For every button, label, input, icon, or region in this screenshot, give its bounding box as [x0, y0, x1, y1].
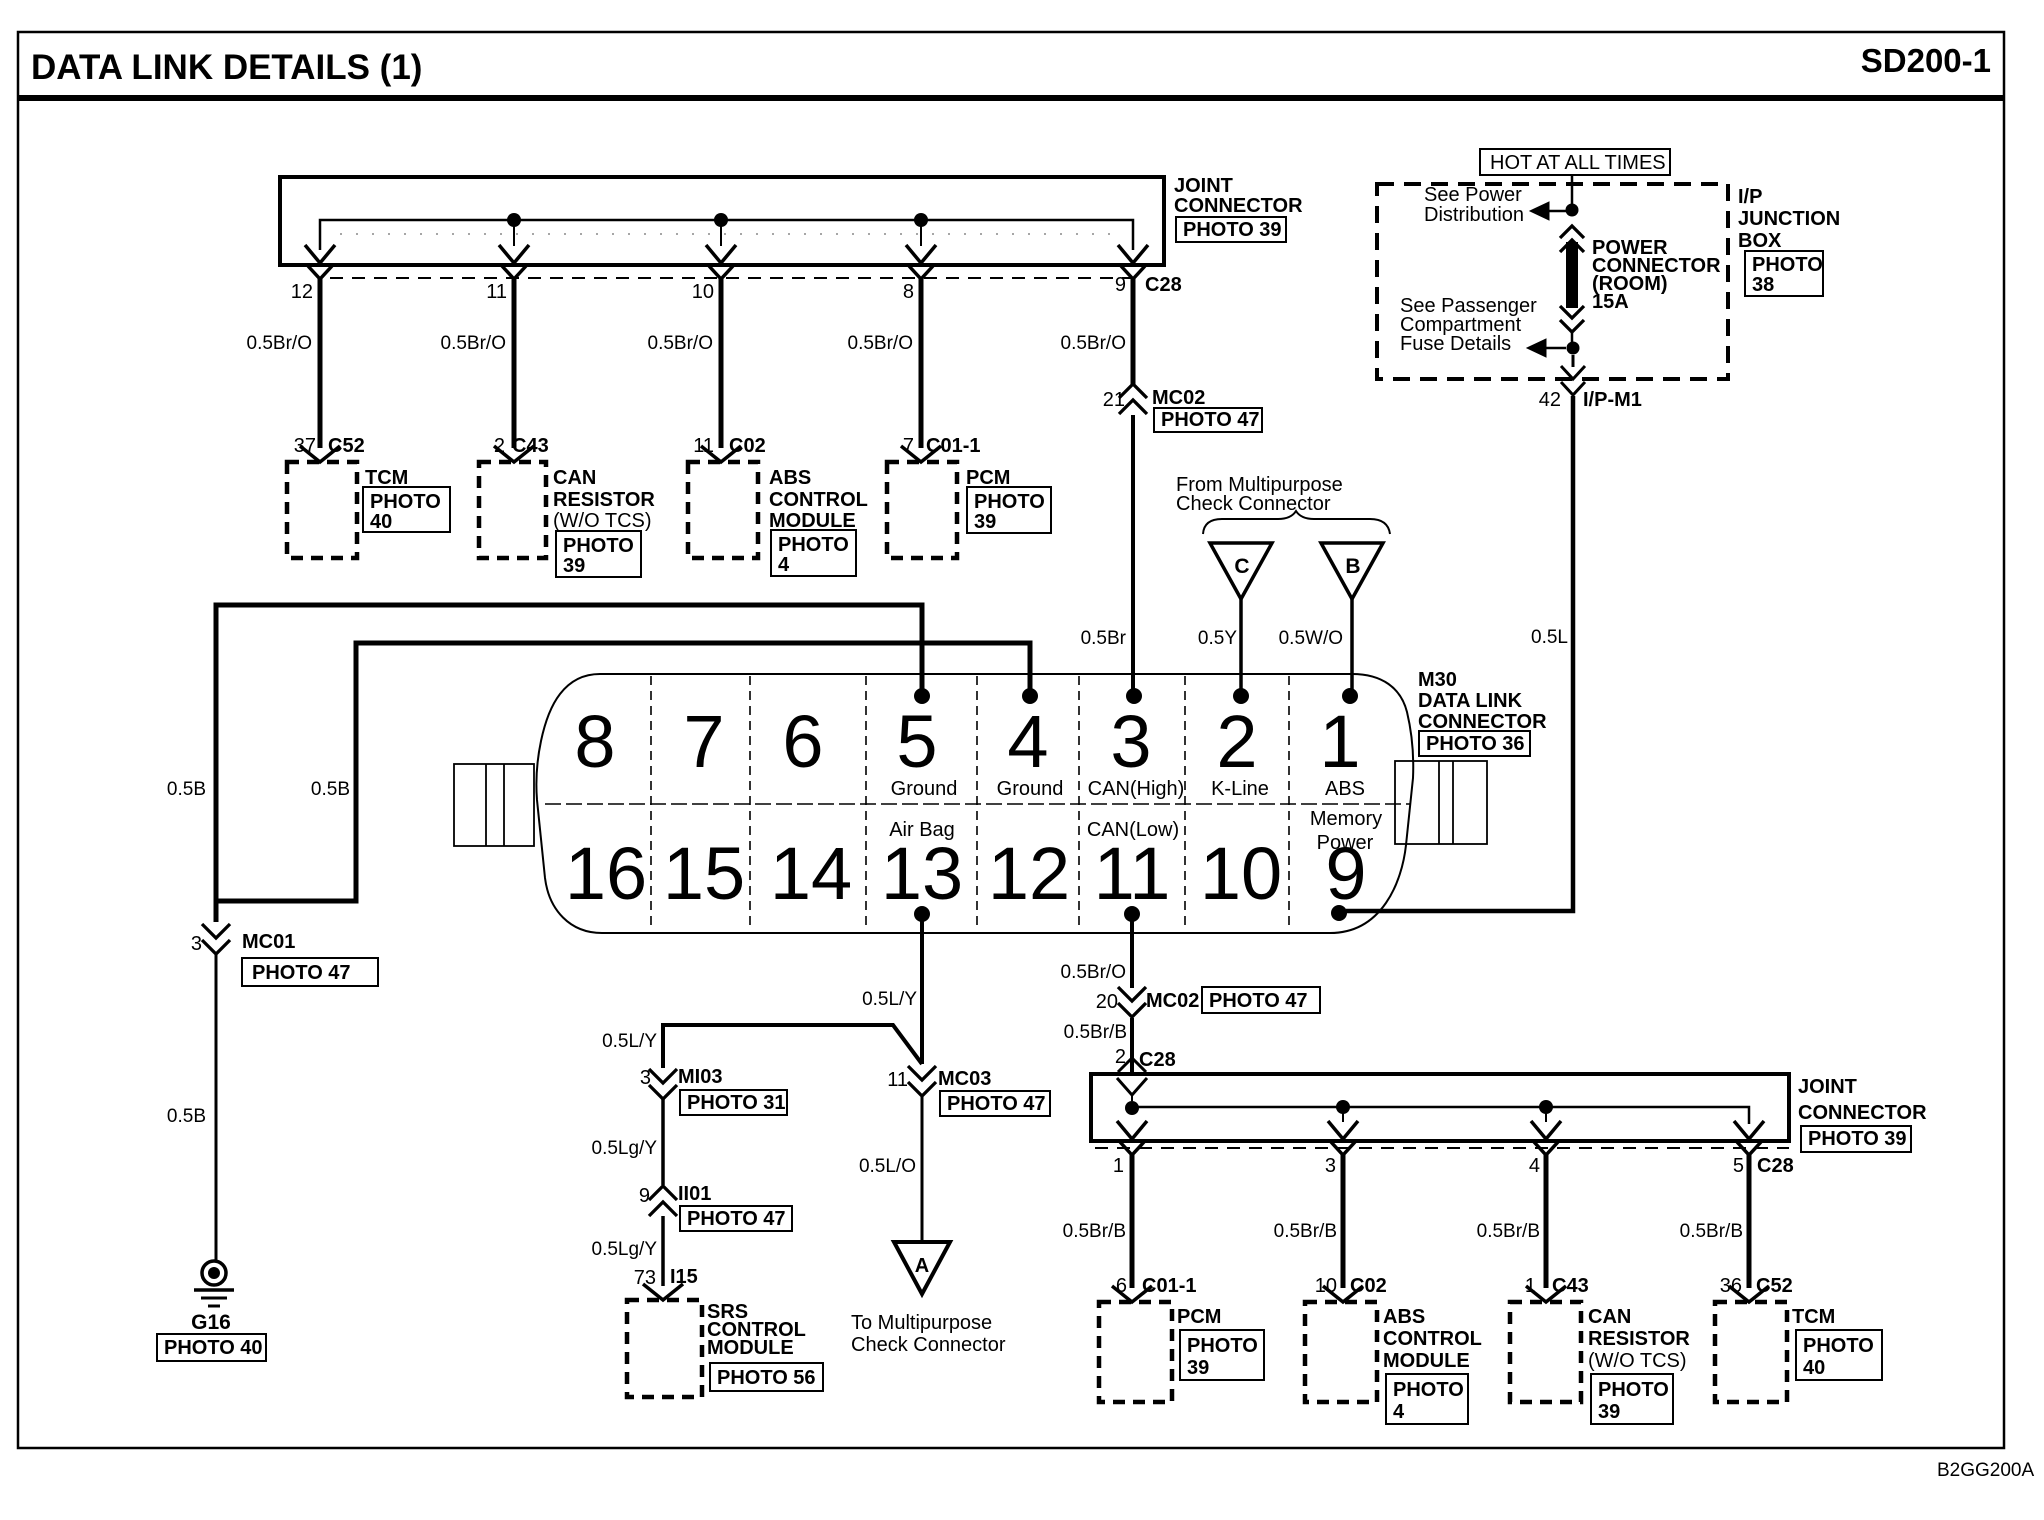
- svg-text:0.5Y: 0.5Y: [1198, 628, 1237, 649]
- svg-text:0.5B: 0.5B: [311, 779, 350, 800]
- svg-text:15: 15: [663, 832, 745, 915]
- svg-text:0.5Br: 0.5Br: [1081, 628, 1127, 649]
- svg-text:Ground: Ground: [891, 778, 958, 800]
- svg-text:PHOTO: PHOTO: [778, 534, 849, 556]
- svg-text:PHOTO 47: PHOTO 47: [252, 962, 351, 984]
- svg-text:CONTROL: CONTROL: [1383, 1328, 1482, 1350]
- svg-text:14: 14: [770, 832, 852, 915]
- wire 0.5B DLC pin 5 to MC01: [216, 605, 922, 922]
- svg-text:0.5B: 0.5B: [167, 1106, 206, 1127]
- pin 1 node: [1342, 688, 1358, 704]
- svg-text:CAN(High): CAN(High): [1088, 778, 1185, 800]
- svg-text:PHOTO 36: PHOTO 36: [1426, 733, 1525, 755]
- svg-text:C28: C28: [1139, 1049, 1176, 1071]
- svg-text:0.5Br/O: 0.5Br/O: [1061, 962, 1126, 983]
- wire 0.5Br/O DLC pin 11 to MC02: [1130, 914, 1134, 988]
- svg-text:C01-1: C01-1: [1142, 1275, 1196, 1297]
- svg-text:2: 2: [1216, 700, 1257, 783]
- connector left tab: [454, 764, 534, 846]
- svg-text:0.5Br/O: 0.5Br/O: [247, 333, 312, 354]
- svg-text:PHOTO 39: PHOTO 39: [1808, 1128, 1907, 1150]
- connector C01-1 pin 7 (PCM): [901, 446, 941, 462]
- svg-text:Fuse Details: Fuse Details: [1400, 333, 1511, 355]
- bus wire inside joint connector C28: [320, 220, 1133, 250]
- svg-text:3: 3: [1325, 1155, 1336, 1177]
- svg-text:RESISTOR: RESISTOR: [1588, 1328, 1690, 1350]
- svg-text:PHOTO: PHOTO: [1752, 254, 1823, 276]
- pin 10 terminal arrow: [706, 245, 736, 263]
- wire 0.5Br/B pin 1 to PCM C01-1: [1130, 1155, 1135, 1288]
- svg-text:CONNECTOR: CONNECTOR: [1418, 711, 1547, 733]
- svg-text:G16: G16: [191, 1311, 231, 1334]
- wire 0.5L I/P-M1 to DLC pin 9: [1346, 396, 1573, 911]
- wire 0.5W/O triangle B to DLC pin 1: [1350, 599, 1354, 690]
- svg-text:10: 10: [692, 281, 714, 303]
- off-page triangle A to multipurpose check connector: [894, 1242, 950, 1294]
- wire 0.5Br/B pin 4 to CAN resistor C43: [1544, 1155, 1549, 1288]
- svg-text:MC02: MC02: [1146, 990, 1199, 1012]
- svg-text:To Multipurpose: To Multipurpose: [851, 1312, 992, 1334]
- svg-text:0.5B: 0.5B: [167, 779, 206, 800]
- svg-text:12: 12: [291, 281, 313, 303]
- svg-text:PHOTO: PHOTO: [1598, 1379, 1669, 1401]
- svg-text:II01: II01: [678, 1183, 711, 1205]
- svg-text:0.5Br/B: 0.5Br/B: [1063, 1221, 1126, 1242]
- junction dot power feed: [1566, 204, 1579, 217]
- svg-text:1: 1: [1319, 700, 1360, 783]
- svg-text:BOX: BOX: [1738, 230, 1782, 252]
- svg-text:CONNECTOR: CONNECTOR: [1174, 195, 1303, 217]
- inline connector MC02 pin 21 (PHOTO 47): [1119, 384, 1147, 414]
- connector C43 pin 1 (CAN resistor): [1526, 1286, 1566, 1302]
- inline connector MI03 pin 3 (PHOTO 31): [649, 1069, 677, 1099]
- svg-text:MODULE: MODULE: [769, 510, 856, 532]
- svg-text:JOINT: JOINT: [1174, 175, 1233, 197]
- svg-text:C28: C28: [1145, 274, 1182, 296]
- svg-text:4: 4: [1007, 700, 1048, 783]
- joint connector C28 (top, PHOTO 39): [280, 177, 1164, 265]
- svg-text:0.5Br/B: 0.5Br/B: [1274, 1221, 1337, 1242]
- svg-text:MC02: MC02: [1152, 387, 1205, 409]
- svg-text:6: 6: [1116, 1275, 1127, 1297]
- wire 0.5Br/B pin 3 to ABS C02: [1341, 1155, 1346, 1288]
- svg-text:CAN(Low): CAN(Low): [1087, 819, 1179, 841]
- wire branch 0.5L/Y to MI03: [663, 1025, 922, 1068]
- terminal I/P-M1 pin 42: [1572, 355, 1575, 367]
- svg-text:PHOTO: PHOTO: [974, 491, 1045, 513]
- svg-text:5: 5: [1733, 1155, 1744, 1177]
- svg-text:PHOTO 47: PHOTO 47: [687, 1208, 786, 1230]
- pin 11 node: [1124, 906, 1140, 922]
- svg-text:0.5L/O: 0.5L/O: [859, 1156, 916, 1177]
- svg-text:20: 20: [1096, 991, 1118, 1013]
- svg-text:C02: C02: [1350, 1275, 1387, 1297]
- wire 0.5Br/O pin 9 to MC02: [1131, 279, 1136, 386]
- svg-text:PHOTO: PHOTO: [1393, 1379, 1464, 1401]
- svg-text:TCM: TCM: [365, 467, 408, 489]
- svg-text:ABS: ABS: [769, 467, 811, 489]
- brace: [1203, 511, 1390, 534]
- svg-text:C52: C52: [1756, 1275, 1793, 1297]
- connector face dashed line (top): [330, 277, 1142, 279]
- svg-text:C02: C02: [729, 435, 766, 457]
- svg-text:PHOTO: PHOTO: [1803, 1335, 1874, 1357]
- data link connector M30 outline: [536, 674, 1413, 933]
- ground G16 (PHOTO 40): [202, 1261, 226, 1285]
- pin 13 node: [914, 906, 930, 922]
- svg-text:MI03: MI03: [678, 1066, 722, 1088]
- svg-text:42: 42: [1539, 389, 1561, 411]
- svg-text:0.5Br/O: 0.5Br/O: [848, 333, 913, 354]
- svg-text:Ground: Ground: [997, 778, 1064, 800]
- svg-text:B2GG200A: B2GG200A: [1937, 1460, 2034, 1481]
- wire 0.5Br/O pin 10 to ABS C02: [719, 279, 724, 448]
- svg-text:JOINT: JOINT: [1798, 1076, 1857, 1098]
- svg-text:1: 1: [1525, 1275, 1536, 1297]
- svg-text:0.5Br/B: 0.5Br/B: [1064, 1022, 1127, 1043]
- pin 9 node: [1331, 905, 1347, 921]
- junction dot pin 11: [507, 213, 521, 227]
- svg-text:JUNCTION: JUNCTION: [1738, 208, 1840, 230]
- svg-text:11: 11: [693, 435, 714, 457]
- svg-text:M30: M30: [1418, 669, 1457, 691]
- wire into junction box: [1571, 175, 1574, 204]
- junction dot fuse output: [1571, 332, 1574, 343]
- svg-text:39: 39: [563, 555, 585, 577]
- svg-text:16: 16: [565, 832, 647, 915]
- connector face dashed line (bottom): [1095, 1147, 1789, 1149]
- entry arrow into bottom joint connector: [1117, 1078, 1147, 1095]
- svg-text:12: 12: [988, 832, 1070, 915]
- svg-text:36: 36: [1720, 1275, 1742, 1297]
- pin 5 node: [914, 688, 930, 704]
- svg-text:Memory: Memory: [1310, 808, 1382, 830]
- wire 0.5Br/O pin 12 to TCM C52: [318, 279, 323, 448]
- svg-text:7: 7: [683, 700, 724, 783]
- I/P junction box (dashed): [1377, 184, 1728, 379]
- svg-text:4: 4: [1393, 1401, 1405, 1423]
- svg-text:PHOTO 47: PHOTO 47: [1209, 990, 1308, 1012]
- svg-text:3: 3: [640, 1067, 651, 1089]
- wire 0.5Br MC02 to DLC pin 3: [1131, 415, 1135, 690]
- svg-text:PHOTO 40: PHOTO 40: [164, 1337, 263, 1359]
- connector C52 pin 37 (TCM): [300, 446, 340, 462]
- svg-text:CAN: CAN: [553, 467, 596, 489]
- svg-text:I15: I15: [670, 1266, 698, 1288]
- svg-text:0.5Lg/Y: 0.5Lg/Y: [592, 1239, 658, 1260]
- svg-text:PHOTO 56: PHOTO 56: [717, 1367, 816, 1389]
- joint connector C28 (bottom, PHOTO 39): [1091, 1074, 1789, 1141]
- pin 11 terminal arrow: [499, 245, 529, 263]
- svg-text:PHOTO: PHOTO: [370, 491, 441, 513]
- svg-text:PHOTO: PHOTO: [1187, 1335, 1258, 1357]
- pin 9 terminal arrow, connector C28: [1118, 245, 1148, 263]
- svg-text:CONTROL: CONTROL: [769, 489, 868, 511]
- wire 0.5Br/O pin 11 to CAN resistor C43: [512, 279, 517, 448]
- svg-text:3: 3: [191, 933, 202, 955]
- wire 0.5Lg/Y II01 to SRS I15: [661, 1216, 665, 1286]
- arrow to See Passenger Compartment Fuse Details: [1546, 347, 1566, 350]
- connector C02 pin 10 (ABS control module): [1323, 1286, 1363, 1302]
- svg-text:9: 9: [639, 1185, 650, 1207]
- svg-text:Check Connector: Check Connector: [1176, 493, 1331, 515]
- inline connector MC03 pin 11 (PHOTO 47): [908, 1066, 936, 1096]
- svg-text:PHOTO 47: PHOTO 47: [947, 1093, 1046, 1115]
- svg-text:DATA LINK DETAILS (1): DATA LINK DETAILS (1): [31, 48, 422, 87]
- svg-text:Air Bag: Air Bag: [889, 819, 955, 841]
- pin 12 terminal arrow: [305, 245, 335, 263]
- svg-text:RESISTOR: RESISTOR: [553, 489, 655, 511]
- svg-text:CONNECTOR: CONNECTOR: [1798, 1102, 1927, 1124]
- svg-text:C52: C52: [328, 435, 365, 457]
- junction dot pin 8: [914, 213, 928, 227]
- connector mid divider: [545, 803, 1410, 805]
- svg-text:21: 21: [1103, 389, 1125, 411]
- connector C43 pin 2 (CAN resistor): [494, 446, 534, 462]
- pin 4 terminal arrow (bottom): [1531, 1121, 1561, 1139]
- svg-text:11: 11: [486, 281, 507, 303]
- svg-text:7: 7: [903, 435, 914, 457]
- svg-text:0.5L: 0.5L: [1531, 627, 1568, 648]
- svg-text:8: 8: [574, 700, 615, 783]
- svg-text:I/P: I/P: [1738, 186, 1762, 208]
- svg-text:8: 8: [903, 281, 914, 303]
- wire 0.5L/O MC03 to triangle A: [921, 1096, 924, 1241]
- connector C02 pin 11 (ABS control module): [701, 446, 741, 462]
- svg-text:C: C: [1234, 555, 1249, 578]
- off-page triangle B: [1321, 543, 1383, 599]
- svg-text:TCM: TCM: [1792, 1306, 1835, 1328]
- svg-text:MC01: MC01: [242, 931, 295, 953]
- svg-text:37: 37: [294, 435, 316, 457]
- inline connector II01 pin 9 (PHOTO 47): [649, 1186, 677, 1216]
- svg-text:Power: Power: [1317, 832, 1374, 854]
- connector right tab: [1395, 761, 1487, 844]
- bus wire inside bottom joint connector: [1132, 1107, 1749, 1124]
- svg-text:ABS: ABS: [1325, 778, 1365, 800]
- svg-text:0.5L/Y: 0.5L/Y: [862, 989, 917, 1010]
- svg-text:(W/O TCS): (W/O TCS): [553, 510, 652, 532]
- svg-text:0.5Br/O: 0.5Br/O: [441, 333, 506, 354]
- fuse POWER CONNECTOR (ROOM) 15A: [1560, 226, 1584, 252]
- svg-text:CAN: CAN: [1588, 1306, 1631, 1328]
- wire 0.5Lg/Y MI03 to II01: [661, 1099, 665, 1185]
- wire 0.5L/Y DLC pin 13 to MC03: [920, 914, 924, 1064]
- junction dot bottom pin 3: [1336, 1100, 1350, 1114]
- svg-text:2: 2: [494, 435, 505, 457]
- svg-text:4: 4: [778, 554, 790, 576]
- arrow to See Power Distribution: [1549, 210, 1567, 213]
- connector C52 pin 36 (TCM): [1729, 1286, 1769, 1302]
- svg-text:MC03: MC03: [938, 1068, 991, 1090]
- svg-text:DATA LINK: DATA LINK: [1418, 690, 1523, 712]
- svg-text:C01-1: C01-1: [926, 435, 980, 457]
- svg-text:PCM: PCM: [966, 467, 1010, 489]
- pin 3 terminal arrow (bottom): [1328, 1121, 1358, 1139]
- svg-text:0.5Br/B: 0.5Br/B: [1680, 1221, 1743, 1242]
- connector C01-1 pin 6 (PCM): [1112, 1286, 1152, 1302]
- svg-text:PHOTO: PHOTO: [563, 535, 634, 557]
- svg-text:1: 1: [1113, 1155, 1124, 1177]
- connector cell dividers: [651, 676, 1289, 931]
- svg-text:11: 11: [887, 1069, 908, 1091]
- svg-text:40: 40: [370, 511, 392, 533]
- svg-text:See Power: See Power: [1424, 184, 1522, 206]
- junction dot bottom pin 1: [1125, 1101, 1139, 1115]
- wire 0.5Br/B MC02 to C28 pin 2: [1130, 1018, 1134, 1074]
- svg-text:39: 39: [1598, 1401, 1620, 1423]
- svg-text:A: A: [915, 1255, 929, 1277]
- pin 2 node: [1233, 688, 1249, 704]
- junction dot pin 10: [714, 213, 728, 227]
- pin 1 terminal arrow (bottom): [1117, 1121, 1147, 1139]
- svg-text:C43: C43: [1552, 1275, 1589, 1297]
- off-page triangle C: [1210, 543, 1272, 599]
- svg-text:3: 3: [1110, 700, 1151, 783]
- wire 0.5Br/O pin 8 to PCM C01-1: [919, 279, 924, 448]
- svg-text:(W/O TCS): (W/O TCS): [1588, 1350, 1687, 1372]
- label HOT AT ALL TIMES: [1480, 149, 1670, 175]
- svg-text:ABS: ABS: [1383, 1306, 1425, 1328]
- svg-text:Distribution: Distribution: [1424, 204, 1524, 226]
- svg-text:PCM: PCM: [1177, 1306, 1221, 1328]
- svg-text:MODULE: MODULE: [1383, 1350, 1470, 1372]
- svg-text:5: 5: [896, 700, 937, 783]
- inline connector MC01 pin 3 (PHOTO 47): [202, 924, 230, 954]
- svg-text:0.5Br/B: 0.5Br/B: [1477, 1221, 1540, 1242]
- svg-text:PHOTO 47: PHOTO 47: [1161, 409, 1260, 431]
- svg-text:39: 39: [1187, 1357, 1209, 1379]
- svg-text:39: 39: [974, 511, 996, 533]
- svg-text:10: 10: [1315, 1275, 1337, 1297]
- pin 3 node: [1126, 688, 1142, 704]
- svg-text:4: 4: [1529, 1155, 1540, 1177]
- svg-text:HOT AT ALL TIMES: HOT AT ALL TIMES: [1490, 152, 1666, 174]
- svg-text:0.5L/Y: 0.5L/Y: [602, 1031, 657, 1052]
- svg-text:I/P-M1: I/P-M1: [1583, 389, 1642, 411]
- wire 0.5B MC01 to ground G16: [215, 954, 218, 1261]
- wire 0.5Br/B pin 5 to TCM C52: [1747, 1155, 1752, 1288]
- svg-text:38: 38: [1752, 274, 1774, 296]
- wire 0.5B DLC pin 4 join: [218, 643, 1030, 901]
- svg-text:0.5Br/O: 0.5Br/O: [1061, 333, 1126, 354]
- svg-text:PHOTO 31: PHOTO 31: [687, 1092, 786, 1114]
- svg-text:11: 11: [1094, 832, 1171, 915]
- svg-text:15A: 15A: [1592, 291, 1629, 313]
- svg-text:B: B: [1345, 555, 1360, 578]
- svg-text:Check Connector: Check Connector: [851, 1334, 1006, 1356]
- svg-text:40: 40: [1803, 1357, 1825, 1379]
- svg-text:SD200-1: SD200-1: [1861, 42, 1991, 79]
- svg-text:MODULE: MODULE: [707, 1337, 794, 1359]
- svg-text:0.5Br/O: 0.5Br/O: [648, 333, 713, 354]
- svg-text:C28: C28: [1757, 1155, 1794, 1177]
- svg-text:10: 10: [1200, 832, 1282, 915]
- wire 0.5Y triangle C to DLC pin 2: [1239, 599, 1243, 690]
- svg-text:0.5Lg/Y: 0.5Lg/Y: [592, 1138, 658, 1159]
- svg-text:K-Line: K-Line: [1211, 778, 1269, 800]
- svg-text:PHOTO 39: PHOTO 39: [1183, 219, 1282, 241]
- pin 8 terminal arrow: [906, 245, 936, 263]
- pin 4 node: [1022, 688, 1038, 704]
- svg-text:6: 6: [782, 700, 823, 783]
- svg-text:0.5W/O: 0.5W/O: [1279, 628, 1343, 649]
- inline connector MC02 pin 20 (PHOTO 47): [1118, 987, 1146, 1017]
- pin 5 terminal arrow (bottom), connector C28: [1734, 1121, 1764, 1139]
- svg-text:C43: C43: [512, 435, 549, 457]
- junction dot bottom pin 4: [1539, 1100, 1553, 1114]
- svg-text:13: 13: [881, 832, 963, 915]
